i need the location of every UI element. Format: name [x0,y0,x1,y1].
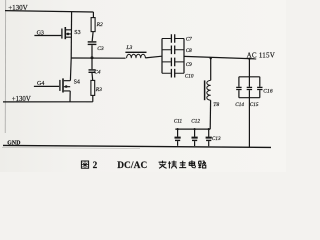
svg-text:L3: L3 [125,45,132,51]
svg-text:DC/AC: DC/AC [117,161,147,171]
svg-text:C10: C10 [185,73,194,79]
svg-text:+130V: +130V [8,4,28,12]
svg-text:G4: G4 [37,81,44,87]
svg-text:C12: C12 [191,119,200,125]
svg-text:C4: C4 [94,70,101,76]
svg-text:C11: C11 [174,119,183,125]
svg-text:2: 2 [93,160,98,170]
svg-text:S3: S3 [74,30,80,36]
svg-text:GND: GND [7,140,20,146]
svg-text:AC 115V: AC 115V [247,52,276,60]
svg-text:C9: C9 [186,62,192,68]
svg-text:C13: C13 [212,136,221,142]
svg-text:C8: C8 [186,48,192,54]
svg-text:C15: C15 [250,102,259,108]
svg-text:C16: C16 [263,89,273,95]
svg-text:R3: R3 [95,87,102,93]
svg-text:+130V: +130V [12,96,31,103]
svg-text:C3: C3 [97,46,104,52]
svg-text:R2: R2 [96,22,103,28]
svg-text:C14: C14 [235,101,244,108]
svg-text:T8: T8 [213,102,219,108]
svg-text:C7: C7 [186,36,192,42]
svg-text:G3: G3 [37,31,44,37]
svg-text:S4: S4 [74,80,80,86]
